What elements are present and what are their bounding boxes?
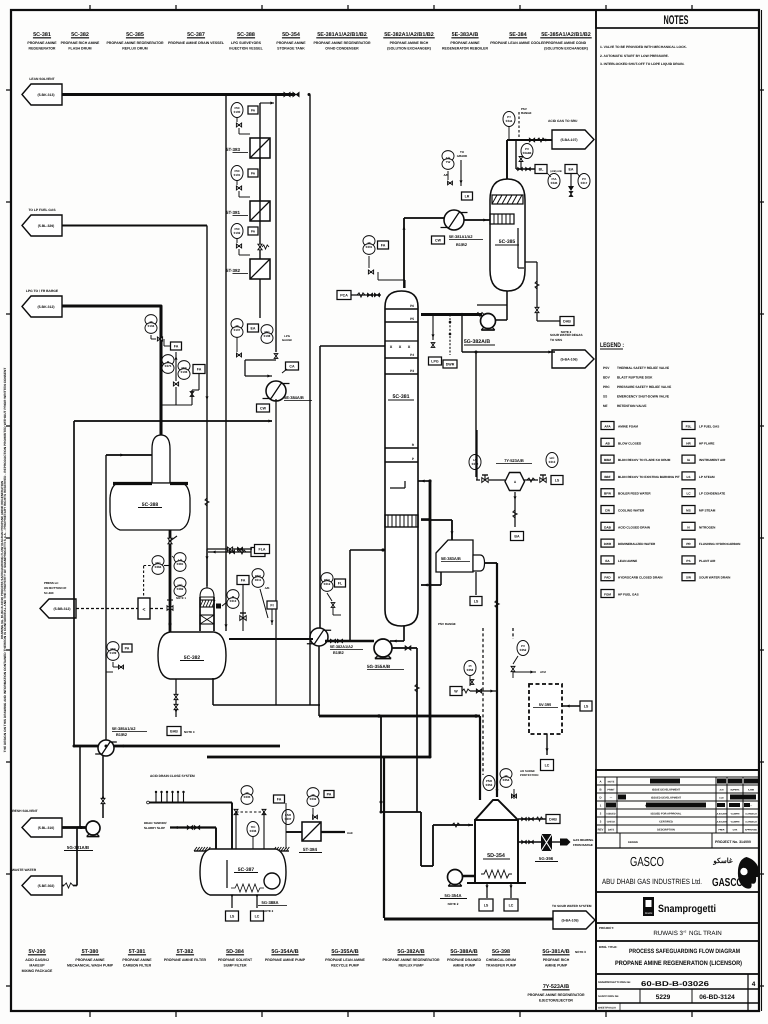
svg-text:PLANT AIR: PLANT AIR xyxy=(699,559,716,563)
svg-text:x: x xyxy=(390,344,393,349)
svg-text:NOTE: NOTE xyxy=(608,781,615,784)
svg-text:A.SALEM: A.SALEM xyxy=(717,813,727,816)
svg-text:HP FLARE: HP FLARE xyxy=(699,441,714,445)
svg-text:SOUR WATER DRAIN: SOUR WATER DRAIN xyxy=(699,576,731,580)
svg-text:1. VALVE TO BE PROVIDED WITH: 1. VALVE TO BE PROVIDED WITH MECHANICAL … xyxy=(600,45,687,49)
svg-text:REFLUX PUMP: REFLUX PUMP xyxy=(398,964,424,968)
exchanger inlet from column xyxy=(319,346,321,628)
svg-text:BA: BA xyxy=(514,534,520,538)
svg-text:P3: P3 xyxy=(410,369,414,373)
5C-388 bottom outlet thick to flash drum xyxy=(169,530,172,632)
svg-text:0100: 0100 xyxy=(234,110,241,114)
line exchanger to pump xyxy=(325,640,374,642)
legend item PS xyxy=(682,556,695,564)
svg-text:5E-383A/B: 5E-383A/B xyxy=(441,556,461,561)
svg-text:D: D xyxy=(599,796,601,800)
svg-text:ABU DHABI GAS INDUSTRIES Ltd.: ABU DHABI GAS INDUSTRIES Ltd. xyxy=(602,877,702,886)
svg-text:5D-354: 5D-354 xyxy=(282,32,300,38)
main line lpg to 5C-388 xyxy=(62,304,161,307)
svg-text:EA: EA xyxy=(569,167,574,171)
svg-text:0345: 0345 xyxy=(551,181,558,185)
ejector drain down xyxy=(514,492,516,527)
flash drum neck xyxy=(199,597,201,631)
svg-text:LS: LS xyxy=(484,903,489,907)
svg-text:BL: BL xyxy=(539,167,545,171)
svg-text:SW: SW xyxy=(686,576,691,580)
svg-text:<: < xyxy=(143,607,146,613)
kettle outlet down xyxy=(475,572,477,595)
filter 5T-382 xyxy=(250,259,270,279)
kettle bottom return to column xyxy=(440,572,442,585)
tank lower line to 5G-398 arrester xyxy=(518,841,541,843)
svg-text:PROCESS SAFEGUARDING FLOW DIAG: PROCESS SAFEGUARDING FLOW DIAGRAM xyxy=(629,948,740,955)
svg-text:A.ANGELO: A.ANGELO xyxy=(745,821,757,824)
svg-text:PROTECTION: PROTECTION xyxy=(520,773,538,777)
column side draw to pump line xyxy=(349,550,351,641)
column overhead line xyxy=(403,218,405,288)
svg-text:06-BD-3124: 06-BD-3124 xyxy=(699,994,735,1001)
svg-text:4: 4 xyxy=(752,981,756,988)
tank upper side line to DAB xyxy=(518,818,546,820)
svg-text:ACID CLOSED DRAIN: ACID CLOSED DRAIN xyxy=(618,525,651,529)
svg-text:LEAN SOLVENT: LEAN SOLVENT xyxy=(29,77,54,81)
svg-text:(5-BA-107): (5-BA-107) xyxy=(561,138,578,142)
svg-text:(SOLUTION EXCHANGER): (SOLUTION EXCHANGER) xyxy=(544,47,588,51)
svg-text:THERMAL SAFETY RELIEF VALVE: THERMAL SAFETY RELIEF VALVE xyxy=(617,366,669,370)
fresh solvent to pump xyxy=(80,826,83,829)
neck hatch band xyxy=(200,600,214,607)
svg-text:(5-BA-105): (5-BA-105) xyxy=(562,918,579,922)
left rail x74 xyxy=(73,421,75,746)
vertical x431 junctions xyxy=(421,518,431,520)
svg-text:0352: 0352 xyxy=(520,648,527,652)
svg-text:REGENERATOR: REGENERATOR xyxy=(29,47,56,51)
svg-text:7Y-523A/B: 7Y-523A/B xyxy=(543,984,569,990)
svg-text:SNAM: SNAM xyxy=(645,912,653,915)
instrument cluster at flash drum rail xyxy=(107,642,119,653)
svg-text:BLOW CLOSED: BLOW CLOSED xyxy=(618,441,642,445)
svg-text:B1/B2: B1/B2 xyxy=(333,651,344,655)
bubble PSV right xyxy=(517,641,529,656)
svg-text:PSV RANGE: PSV RANGE xyxy=(438,622,456,626)
svg-text:TO LP FUEL GAS: TO LP FUEL GAS xyxy=(28,208,56,212)
svg-text:CW: CW xyxy=(605,509,610,513)
5C-387 heater coil xyxy=(231,884,264,892)
tank base xyxy=(467,882,526,884)
FA box above drum xyxy=(237,576,249,585)
svg-text:INJECTION VESSEL: INJECTION VESSEL xyxy=(229,47,263,51)
svg-text:(5-BK-312): (5-BK-312) xyxy=(38,305,55,309)
FA bubble left of column top xyxy=(363,236,375,247)
svg-text:NOTE 2: NOTE 2 xyxy=(263,909,274,913)
svg-text:BFW: BFW xyxy=(604,492,611,496)
svg-text:GASCO DRG No:: GASCO DRG No: xyxy=(598,995,619,998)
sump pump 5G-388A inside xyxy=(264,873,280,889)
filter 5T-381 xyxy=(250,201,270,221)
svg-text:LS: LS xyxy=(584,704,589,708)
column feed riser from bottom xyxy=(429,481,432,757)
svg-text:PROPANE AMINE FILTER: PROPANE AMINE FILTER xyxy=(164,958,207,962)
svg-text:LPG: LPG xyxy=(431,359,439,363)
svg-text:APPROVED: APPROVED xyxy=(745,829,758,832)
svg-text:0107: 0107 xyxy=(234,328,241,332)
svg-text:FSL: FSL xyxy=(686,425,692,429)
drain vessel 5C-387 xyxy=(200,849,286,895)
svg-text:(5-BK-313): (5-BK-313) xyxy=(38,93,55,97)
BAB box note 3 xyxy=(167,727,181,736)
svg-text:SNAMPROGETTI DWG No:: SNAMPROGETTI DWG No: xyxy=(598,981,631,984)
svg-text:FRESH SOLVENT: FRESH SOLVENT xyxy=(10,809,37,813)
svg-text:PROJECT:: PROJECT: xyxy=(599,926,614,930)
svg-text:FLA: FLA xyxy=(259,547,266,551)
svg-text:ISSUED FOR APPROVAL: ISSUED FOR APPROVAL xyxy=(651,813,682,816)
sour water line tap from reflux xyxy=(461,315,463,353)
svg-text:5E-382A1/A2/B1/B2: 5E-382A1/A2/B1/B2 xyxy=(384,32,433,38)
svg-text:CHECK: CHECK xyxy=(607,821,616,824)
svg-text:5G-382A/B: 5G-382A/B xyxy=(464,339,490,345)
svg-text:5G-388A: 5G-388A xyxy=(262,900,279,905)
svg-text:(A/B) A/B: (A/B) A/B xyxy=(550,170,561,173)
svg-text:NOTES: NOTES xyxy=(664,13,689,27)
svg-text:0382: 0382 xyxy=(177,587,184,591)
svg-text:HYDROCARB CLOSED DRAIN: HYDROCARB CLOSED DRAIN xyxy=(618,576,663,580)
line flash drum to exchanger xyxy=(229,638,313,640)
svg-text:5G-354A/B: 5G-354A/B xyxy=(271,949,298,955)
gasco drg no row xyxy=(596,1002,759,1004)
svg-text:ON BOTTOM OF: ON BOTTOM OF xyxy=(44,586,67,590)
svg-text:5G-381A/B: 5G-381A/B xyxy=(67,845,89,850)
snamprogetti dwg no row xyxy=(596,988,759,990)
svg-text:PROPANE SOLVENT: PROPANE SOLVENT xyxy=(218,958,253,962)
svg-text:LPG TO / FR BARGE: LPG TO / FR BARGE xyxy=(26,289,59,293)
svg-text:CARBON FILTER: CARBON FILTER xyxy=(123,964,152,968)
kettle liquid line to tank xyxy=(484,562,497,564)
svg-text:PROPANE LEAN AMINE COOLER: PROPANE LEAN AMINE COOLER xyxy=(490,41,546,45)
svg-text:PRESSURE SAFETY RELIEF VALVE: PRESSURE SAFETY RELIEF VALVE xyxy=(617,385,671,389)
svg-text:PREP.: PREP. xyxy=(718,829,725,832)
hand switch box xyxy=(138,598,150,619)
svg-text:MP STEAM: MP STEAM xyxy=(699,509,716,513)
acid gas overhead xyxy=(506,140,508,179)
svg-text:MS: MS xyxy=(686,509,691,513)
svg-text:CHEMICAL DRUM: CHEMICAL DRUM xyxy=(486,958,516,962)
svg-text:5G-398: 5G-398 xyxy=(539,856,554,861)
svg-text:RETENTION VALVE: RETENTION VALVE xyxy=(617,404,646,408)
column feed inlet xyxy=(418,480,430,482)
svg-text:7Y-523A/B: 7Y-523A/B xyxy=(504,458,524,463)
svg-text:rd: rd xyxy=(684,930,687,934)
svg-text:DESCRIPTION: DESCRIPTION xyxy=(657,829,675,832)
line to right down xyxy=(321,831,345,833)
vessel 5C-388 LPG surge xyxy=(152,435,170,483)
svg-text:5C-380: 5C-380 xyxy=(44,591,54,595)
svg-text:NOTE 3: NOTE 3 xyxy=(184,730,195,734)
svg-text:2. AUTOMATIC START BY LOW PRE: 2. AUTOMATIC START BY LOW PRESSURE. xyxy=(600,54,669,58)
svg-text:DEAD TANKER/: DEAD TANKER/ xyxy=(144,821,167,825)
svg-text:DWG. TITLE:: DWG. TITLE: xyxy=(599,945,617,949)
legend item SW xyxy=(682,573,695,581)
svg-text:EMERGENCY SHUT-DOWN VALVE: EMERGENCY SHUT-DOWN VALVE xyxy=(617,395,669,399)
vertical x80 to pump suction xyxy=(79,746,81,827)
svg-text:ACID GAS/INJ: ACID GAS/INJ xyxy=(25,958,49,962)
svg-text:0335: 0335 xyxy=(244,795,251,799)
TI bubble above condenser xyxy=(442,151,454,162)
pump discharge loop xyxy=(421,865,433,867)
legend item BBF xyxy=(601,472,614,480)
svg-text:SHEET/FOGLIO: SHEET/FOGLIO xyxy=(598,1007,616,1010)
svg-text:A: A xyxy=(599,780,601,784)
svg-text:STORAGE TANK: STORAGE TANK xyxy=(277,47,305,51)
riser x381 down to pump 354 xyxy=(380,716,382,812)
svg-text:x: x xyxy=(399,344,402,349)
svg-text:(5-BB-312): (5-BB-312) xyxy=(54,607,71,611)
instrument drain to rail xyxy=(161,404,192,406)
svg-text:0381: 0381 xyxy=(177,562,184,566)
svg-text:LS: LS xyxy=(230,914,235,918)
svg-text:LCD: LCD xyxy=(719,797,724,800)
svg-text:0106: 0106 xyxy=(181,370,188,374)
title block outline xyxy=(596,770,759,1011)
svg-text:ACID DRAIN CLOSE SYSTEM: ACID DRAIN CLOSE SYSTEM xyxy=(150,774,195,778)
reboiler 5E-383A/B kettle xyxy=(436,540,473,572)
svg-text:LC: LC xyxy=(545,763,550,767)
svg-text:PROPANE AMINE: PROPANE AMINE xyxy=(450,41,480,45)
svg-text:REV: REV xyxy=(598,828,604,832)
svg-text:A.M: A.M xyxy=(719,789,723,792)
PT bubble xyxy=(503,112,515,127)
svg-text:MECHANICAL WASH PUMP: MECHANICAL WASH PUMP xyxy=(67,964,114,968)
svg-text:PSV: PSV xyxy=(603,366,610,370)
svg-text:5E-384: 5E-384 xyxy=(509,32,526,38)
svg-text:FA: FA xyxy=(277,797,282,801)
flash drum bottom outlet xyxy=(175,679,177,717)
5V-390 dashed package xyxy=(529,684,562,734)
instrument cluster left mid A xyxy=(145,315,157,326)
PV PIC bubble xyxy=(521,144,533,159)
svg-text:5T-380: 5T-380 xyxy=(82,949,99,955)
svg-text:LP STEAM: LP STEAM xyxy=(699,475,715,479)
main bottom header y757 xyxy=(207,756,430,759)
svg-text:P6: P6 xyxy=(410,304,414,308)
reboiler return line xyxy=(421,584,441,586)
neck X band xyxy=(200,615,214,624)
svg-text:PROPANE AMINE REGENERATOR: PROPANE AMINE REGENERATOR xyxy=(313,41,371,45)
svg-text:FI: FI xyxy=(270,603,273,607)
svg-text:EA: EA xyxy=(605,559,610,563)
svg-text:PROPANE RICH: PROPANE RICH xyxy=(543,958,570,962)
svg-text:A.MIN: A.MIN xyxy=(748,789,755,792)
svg-text:BDV: BDV xyxy=(603,376,611,380)
legend item BFW xyxy=(601,489,614,497)
long line y419 lean amine xyxy=(74,420,272,422)
svg-text:PROPANE AMINE REGENERATOR: PROPANE AMINE REGENERATOR xyxy=(527,993,585,997)
Snamprogetti band xyxy=(596,922,759,924)
svg-text:FGM: FGM xyxy=(604,593,611,597)
svg-text:SUPERV.: SUPERV. xyxy=(730,789,740,792)
svg-text:3. INTERLOCKED SHUT-OFF TO LD: 3. INTERLOCKED SHUT-OFF TO LDPE LIQUID D… xyxy=(600,62,684,66)
svg-text:PROPANE AMINE: PROPANE AMINE xyxy=(27,41,57,45)
svg-text:CHK: CHK xyxy=(733,829,738,832)
filter train connecting line xyxy=(259,103,261,259)
column 5C-381 xyxy=(385,291,418,626)
amine pump 5G-354A/B xyxy=(448,870,463,885)
svg-text:REGENERATOR REBOILER: REGENERATOR REBOILER xyxy=(442,47,488,51)
feed junction dots xyxy=(428,479,431,482)
svg-text:5D-354: 5D-354 xyxy=(487,853,505,859)
svg-text:LR: LR xyxy=(465,194,470,198)
svg-text:RUWAIS 3: RUWAIS 3 xyxy=(653,930,683,937)
LC box below 5V-390 xyxy=(546,734,548,755)
FE flow element xyxy=(529,138,535,142)
svg-text:PROPANE AMINE REGENERATOR: PROPANE AMINE REGENERATOR xyxy=(382,958,440,962)
svg-text:BBM: BBM xyxy=(604,458,611,462)
svg-text:BAB: BAB xyxy=(170,729,178,733)
svg-text:CW: CW xyxy=(260,406,267,410)
instrument bubbles on outlet line xyxy=(174,553,186,564)
svg-text:5E-381A1/A2/B1/B2: 5E-381A1/A2/B1/B2 xyxy=(317,32,366,38)
chemical transfer 5G-398 xyxy=(541,834,552,851)
svg-text:5C-381: 5C-381 xyxy=(392,394,409,400)
5C-387 internal weir xyxy=(226,860,228,888)
svg-text:LP FUEL GAS: LP FUEL GAS xyxy=(699,425,719,429)
svg-text:GRADE: GRADE xyxy=(457,154,468,158)
legend item IA xyxy=(682,455,695,463)
svg-text:LS: LS xyxy=(474,599,479,603)
svg-text:0311: 0311 xyxy=(255,578,262,582)
legend item AFA xyxy=(601,422,614,430)
svg-text:LC: LC xyxy=(509,903,514,907)
vertical line x276 upper xyxy=(275,95,277,353)
legend item BBM xyxy=(601,455,614,463)
FA box right of 5C-387 xyxy=(274,795,285,803)
ejector outlet xyxy=(524,479,538,481)
x276 down to header705 xyxy=(275,399,277,705)
svg-text:EJECTOR/EJECTOR: EJECTOR/EJECTOR xyxy=(539,999,573,1003)
instrument bubble PDI 5T-381 xyxy=(231,166,243,181)
svg-text:DAB: DAB xyxy=(549,817,557,821)
svg-text:PA: PA xyxy=(251,108,256,112)
svg-text:(SOLUTION EXCHANGER): (SOLUTION EXCHANGER) xyxy=(387,47,431,51)
tank internal coil xyxy=(481,870,512,878)
pump 5G-355A/B xyxy=(374,639,392,657)
dashed signal to flash drum xyxy=(76,608,138,610)
instrument cluster mid B xyxy=(231,319,243,330)
drum boot outlet to pump xyxy=(506,291,508,320)
vertical line x477 sour water xyxy=(476,430,478,480)
svg-text:0109: 0109 xyxy=(110,651,117,655)
svg-text:Snamprogetti: Snamprogetti xyxy=(658,903,716,915)
legend item EA xyxy=(601,556,614,564)
fresh solvent line xyxy=(62,826,87,829)
svg-text:BLDN RECOV TO EXISTING BURNING: BLDN RECOV TO EXISTING BURNING PIT xyxy=(618,475,680,479)
svg-text:PROPANE AMINE: PROPANE AMINE xyxy=(75,958,105,962)
tank level boxes xyxy=(486,883,488,898)
ejector bubbles xyxy=(469,455,481,470)
svg-text:NOTE 2: NOTE 2 xyxy=(561,330,572,334)
svg-text:5G-398: 5G-398 xyxy=(492,949,510,955)
bubble PSH left xyxy=(464,661,476,676)
svg-text:FA: FA xyxy=(197,367,202,371)
svg-text:0336: 0336 xyxy=(250,829,257,833)
svg-text:SUMP FILTER: SUMP FILTER xyxy=(223,964,246,968)
header y716 xyxy=(319,715,480,718)
svg-text:B: B xyxy=(599,788,601,792)
revision table xyxy=(596,776,759,778)
svg-text:0354: 0354 xyxy=(503,778,510,782)
overhead reflux return thick line xyxy=(421,313,482,316)
svg-text:0384: 0384 xyxy=(155,565,162,569)
svg-text:TRANSFER PUMP: TRANSFER PUMP xyxy=(486,964,517,968)
BL line with valves xyxy=(516,168,535,170)
svg-text:5G-382A/B: 5G-382A/B xyxy=(397,949,424,955)
svg-text:BLAST RUPTURE DISK: BLAST RUPTURE DISK xyxy=(617,376,653,380)
svg-text:PS: PS xyxy=(686,559,690,563)
svg-text:FA: FA xyxy=(174,344,179,348)
svg-text:OVHD CONDENSER: OVHD CONDENSER xyxy=(325,47,359,51)
svg-text:(5-BA-106): (5-BA-106) xyxy=(561,357,578,361)
svg-text:5V-390: 5V-390 xyxy=(539,702,551,707)
bottom header to sour water xyxy=(384,917,553,920)
exchanger 5E-382A1/A2 B1/B2 xyxy=(310,628,328,646)
svg-text:TW: TW xyxy=(446,160,451,164)
svg-text:ISSUE DEVELOPMENT: ISSUE DEVELOPMENT xyxy=(652,789,681,792)
svg-text:UAE: UAE xyxy=(347,831,353,835)
svg-text:DRAWN: DRAWN xyxy=(628,841,638,844)
svg-text:5T-382: 5T-382 xyxy=(177,949,194,955)
svg-text:HR: HR xyxy=(686,441,691,445)
svg-text:GAS BEARING: GAS BEARING xyxy=(573,838,594,842)
svg-text:AFA: AFA xyxy=(604,425,611,429)
svg-text:FLASH DRUM: FLASH DRUM xyxy=(68,47,91,51)
svg-text:LS: LS xyxy=(687,475,691,479)
project number row xyxy=(596,847,759,849)
instrument bubble PDI 5T-382 xyxy=(231,224,243,239)
svg-text:FA: FA xyxy=(381,243,386,247)
svg-text:0332: 0332 xyxy=(310,797,317,801)
legend item FGM xyxy=(601,590,614,598)
svg-text:CA: CA xyxy=(289,364,295,368)
line to FLA box xyxy=(207,548,252,550)
svg-text:5229: 5229 xyxy=(656,994,671,1001)
svg-text:5T-382: 5T-382 xyxy=(226,268,241,273)
svg-text:PRC: PRC xyxy=(603,385,610,389)
pump 5G-381A/B bottom left xyxy=(86,821,100,835)
svg-text:5C-385: 5C-385 xyxy=(126,32,144,38)
svg-text:ISSUED DEVELOPMENT: ISSUED DEVELOPMENT xyxy=(651,797,682,800)
svg-text:(5-BE-302): (5-BE-302) xyxy=(38,884,55,888)
svg-text:WASTE WATER: WASTE WATER xyxy=(12,868,37,872)
svg-text:FROM BARGE: FROM BARGE xyxy=(573,843,593,847)
svg-text:0312: 0312 xyxy=(324,582,331,586)
drum hatch band xyxy=(492,195,523,204)
waste water line xyxy=(62,885,64,887)
vertical line from lean solvent header xyxy=(225,95,227,632)
svg-text:DWR: DWR xyxy=(604,542,612,546)
control valve on psv-range signal xyxy=(519,157,523,162)
svg-text:BBF: BBF xyxy=(604,475,610,479)
svg-text:A.SALEM: A.SALEM xyxy=(717,821,727,824)
main bottom header y747 xyxy=(74,745,280,748)
branch DWR box xyxy=(449,315,451,356)
svg-text:P5: P5 xyxy=(410,317,414,321)
reflux pump 5G-382A/B xyxy=(481,314,496,329)
svg-text:W: W xyxy=(454,689,458,693)
svg-text:5T-381: 5T-381 xyxy=(129,949,146,955)
svg-text:5E-384A/B: 5E-384A/B xyxy=(284,395,304,400)
svg-text:LP CONDENSATE: LP CONDENSATE xyxy=(699,492,725,496)
svg-text:PROPANE AMINE: PROPANE AMINE xyxy=(276,41,306,45)
svg-text:5G-355A/B: 5G-355A/B xyxy=(331,949,358,955)
